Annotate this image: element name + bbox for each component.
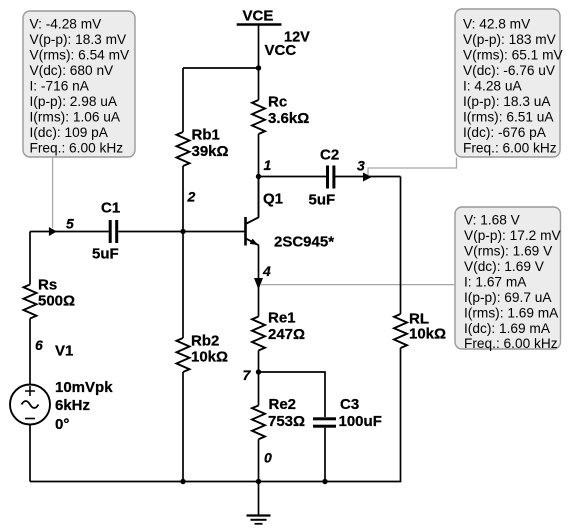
svg-text:500Ω: 500Ω	[38, 293, 75, 310]
wire node 3 down right rail	[400, 177, 402, 315]
probe leader line to node 4	[261, 284, 455, 286]
svg-text:V(p-p): 18.3 mV: V(p-p): 18.3 mV	[30, 32, 127, 47]
svg-text:V: 42.8 mV: V: 42.8 mV	[463, 17, 531, 32]
svg-text:V(p-p): 17.2 mV: V(p-p): 17.2 mV	[464, 228, 561, 243]
probe box 1 (node 5 measurements)	[23, 11, 135, 157]
svg-text:I: 1.67 mA: I: 1.67 mA	[464, 274, 527, 289]
transistor Q1 2SC945	[246, 177, 335, 317]
svg-text:V(dc): 680 nV: V(dc): 680 nV	[30, 63, 115, 78]
svg-text:2SC945*: 2SC945*	[274, 234, 334, 251]
svg-text:I(rms): 1.69 mA: I(rms): 1.69 mA	[464, 305, 559, 320]
svg-text:100uF: 100uF	[339, 413, 382, 430]
svg-text:I(p-p): 69.7 uA: I(p-p): 69.7 uA	[464, 290, 552, 305]
resistor Rs 500	[24, 277, 76, 319]
svg-text:7: 7	[243, 367, 252, 383]
svg-text:V(rms): 65.1 mV: V(rms): 65.1 mV	[463, 48, 563, 63]
svg-text:V(rms): 1.69 V: V(rms): 1.69 V	[464, 244, 553, 259]
probe arrow at node 3	[363, 173, 372, 182]
svg-text:C3: C3	[340, 396, 359, 413]
svg-text:1: 1	[264, 157, 272, 173]
svg-text:C1: C1	[101, 200, 120, 217]
svg-text:I(dc): -676 pA: I(dc): -676 pA	[463, 125, 547, 140]
ground	[247, 482, 271, 524]
svg-text:5: 5	[66, 216, 74, 232]
capacitor C3 100uF	[313, 396, 382, 482]
svg-text:VCE: VCE	[243, 7, 274, 24]
svg-text:10kΩ: 10kΩ	[409, 326, 446, 343]
node 1 wire (collector row)	[259, 176, 401, 178]
svg-text:I: 4.28 uA: I: 4.28 uA	[463, 79, 522, 94]
svg-text:V(dc): 1.69 V: V(dc): 1.69 V	[464, 259, 545, 274]
svg-text:VCC: VCC	[265, 42, 297, 59]
svg-text:V(dc): -6.76 uV: V(dc): -6.76 uV	[463, 63, 556, 78]
svg-text:Re2: Re2	[269, 396, 297, 413]
svg-text:Freq.: 6.00 kHz: Freq.: 6.00 kHz	[464, 336, 558, 351]
probe leader line to node 5	[52, 157, 54, 228]
source V1	[10, 343, 113, 434]
svg-text:3.6kΩ: 3.6kΩ	[268, 110, 309, 127]
svg-text:6kHz: 6kHz	[55, 397, 90, 414]
svg-text:Rb1: Rb1	[192, 127, 220, 144]
svg-text:V: 1.68 V: V: 1.68 V	[464, 213, 521, 228]
svg-text:I(p-p): 2.98 uA: I(p-p): 2.98 uA	[30, 94, 118, 109]
svg-text:247Ω: 247Ω	[268, 326, 305, 343]
capacitor C2 5uF	[309, 147, 340, 209]
svg-text:Rc: Rc	[268, 93, 287, 110]
svg-text:10kΩ: 10kΩ	[191, 349, 228, 366]
resistor Rb2 10k	[177, 232, 229, 482]
probe arrow at node 5	[49, 227, 57, 236]
svg-text:Re1: Re1	[268, 310, 296, 327]
bottom rail junction dots	[180, 479, 185, 484]
svg-text:V(rms): 6.54 mV: V(rms): 6.54 mV	[30, 48, 130, 63]
probe box 3 (node 4 measurements)	[455, 207, 561, 351]
probe leader line to node 3	[368, 158, 457, 176]
resistor Rc 3.6k	[252, 93, 309, 134]
svg-text:V: -4.28 mV: V: -4.28 mV	[30, 17, 103, 32]
node 1 junction dot	[256, 174, 261, 179]
wire RL to bottom rail	[30, 348, 401, 482]
svg-text:5uF: 5uF	[309, 191, 336, 208]
svg-text:I(rms): 6.51 uA: I(rms): 6.51 uA	[463, 110, 554, 125]
wire VCC junction to Rb1 top	[183, 67, 259, 69]
svg-text:V(p-p): 183 mV: V(p-p): 183 mV	[463, 32, 557, 47]
capacitor C1 5uF	[92, 200, 120, 263]
node junction at VCC	[256, 65, 261, 70]
svg-text:Freq.: 6.00 kHz: Freq.: 6.00 kHz	[30, 141, 124, 156]
node 7 junction	[256, 369, 261, 374]
svg-text:2: 2	[187, 189, 196, 205]
probe arrow at node 4	[254, 278, 263, 290]
svg-text:6: 6	[35, 337, 43, 353]
svg-text:Freq.: 6.00 kHz: Freq.: 6.00 kHz	[463, 141, 557, 156]
svg-text:3: 3	[357, 158, 365, 174]
svg-text:4: 4	[262, 263, 271, 279]
wire node 7 to C3	[259, 372, 326, 417]
svg-text:Rs: Rs	[38, 277, 57, 294]
svg-text:5uF: 5uF	[92, 246, 119, 263]
svg-text:Rb2: Rb2	[191, 333, 219, 350]
wire VCE bar to VCC junction	[258, 25, 260, 101]
svg-text:C2: C2	[320, 147, 339, 164]
svg-text:753Ω: 753Ω	[268, 413, 305, 430]
resistor Rb1 39k	[177, 68, 229, 232]
resistor Re1 247	[252, 310, 305, 373]
resistor Re2 753	[252, 372, 305, 482]
svg-text:0°: 0°	[55, 416, 69, 433]
left rail: node5 down through Rs and V1	[29, 232, 31, 285]
probe box 2 (node 3 measurements)	[455, 9, 563, 157]
junction dot base/Rb	[180, 229, 185, 234]
svg-text:Q1: Q1	[263, 191, 283, 208]
svg-text:0: 0	[264, 450, 272, 466]
wire V1 to bottom rail	[29, 425, 31, 482]
svg-text:39kΩ: 39kΩ	[192, 143, 229, 160]
svg-text:I(p-p): 18.3 uA: I(p-p): 18.3 uA	[463, 94, 551, 109]
wire Rs to V1	[29, 319, 31, 385]
svg-text:I: -716 nA: I: -716 nA	[30, 79, 90, 94]
wire Rc to node 1	[258, 134, 260, 177]
svg-text:V1: V1	[55, 343, 73, 360]
svg-text:10mVpk: 10mVpk	[55, 379, 113, 396]
svg-text:I(dc): 1.69 mA: I(dc): 1.69 mA	[464, 321, 551, 336]
power symbol VCE	[237, 7, 282, 24]
svg-text:I(rms): 1.06 uA: I(rms): 1.06 uA	[30, 110, 121, 125]
base wire from C1 to Q1	[118, 231, 244, 233]
svg-text:I(dc): 109 pA: I(dc): 109 pA	[30, 125, 109, 140]
resistor RL 10k	[394, 311, 446, 349]
wire left rail to C1	[30, 231, 109, 233]
